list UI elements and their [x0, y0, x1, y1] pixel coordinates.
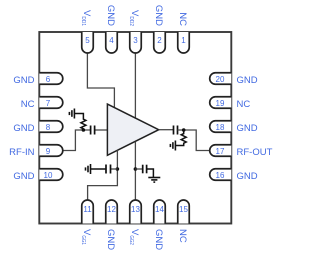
pin 11: [82, 200, 94, 224]
svg-text:GND: GND: [237, 123, 258, 134]
pin 7: [39, 97, 63, 109]
svg-text:14: 14: [155, 205, 164, 214]
node bottom-left junction: [116, 167, 120, 171]
pin 3: [130, 32, 142, 53]
svg-text:GND: GND: [237, 171, 258, 182]
node output junction: [182, 128, 186, 132]
pin 17: [210, 145, 232, 157]
resistor R2 (output shunt): [175, 130, 186, 146]
node input junction: [82, 128, 86, 132]
pin 15: [178, 200, 190, 224]
node bottom-right junction: [134, 167, 138, 171]
package outline U1: [39, 32, 231, 224]
svg-text:15: 15: [179, 205, 188, 214]
pin 19: [210, 97, 232, 109]
svg-text:20: 20: [216, 75, 225, 84]
svg-text:GND: GND: [237, 75, 258, 86]
wire C4 to ground: [147, 169, 154, 177]
svg-text:16: 16: [216, 171, 225, 180]
svg-text:GND: GND: [13, 171, 34, 182]
capacitor C1 (input series): [91, 126, 95, 135]
svg-text:18: 18: [216, 123, 225, 132]
wire RF input from pin 9: [63, 130, 91, 151]
svg-text:GND: GND: [153, 5, 164, 26]
pin 13: [130, 200, 142, 224]
svg-text:6: 6: [46, 75, 51, 84]
pin 16: [210, 169, 232, 181]
svg-text:GND: GND: [105, 5, 116, 26]
svg-text:NC: NC: [177, 12, 188, 26]
wire amp bottom-left to pin 11: [88, 150, 118, 200]
svg-text:7: 7: [46, 99, 51, 108]
wire VDD1 from pin 5 to amp top: [87, 53, 114, 108]
ground (bypass left, sideways): [86, 164, 91, 174]
wire input cap to amp: [95, 129, 108, 131]
wire output to pin 17: [178, 130, 210, 151]
svg-text:8: 8: [46, 123, 51, 132]
svg-text:19: 19: [216, 99, 225, 108]
wire C3 to ground: [91, 168, 107, 170]
wire junction to C4: [135, 168, 142, 170]
capacitor C2 (output series): [174, 126, 178, 135]
svg-text:2: 2: [157, 36, 162, 45]
svg-text:NC: NC: [237, 99, 251, 110]
pin 1: [178, 32, 190, 53]
svg-text:GND: GND: [13, 75, 34, 86]
svg-text:GND: GND: [105, 229, 116, 250]
pin 4: [106, 32, 118, 53]
wire amp bottom-right to pin 13: [134, 142, 136, 200]
capacitor C3 (bypass left): [106, 165, 111, 174]
pin 10: [39, 169, 63, 181]
pin 5: [82, 32, 94, 53]
resistor R1 (input shunt): [74, 114, 86, 131]
svg-text:12: 12: [107, 205, 116, 214]
ground (input, sideways): [69, 109, 74, 119]
svg-text:GND: GND: [153, 229, 164, 250]
pin 14: [154, 200, 166, 224]
svg-text:17: 17: [216, 147, 225, 156]
capacitor C4 (bypass right): [143, 165, 147, 174]
svg-text:1: 1: [181, 36, 186, 45]
svg-text:4: 4: [109, 36, 114, 45]
wire VDD2 from pin 3 to amp top: [134, 53, 136, 119]
svg-text:GND: GND: [13, 123, 34, 134]
svg-text:9: 9: [46, 147, 51, 156]
svg-text:NC: NC: [21, 99, 35, 110]
svg-text:3: 3: [133, 36, 138, 45]
pin 8: [39, 121, 63, 133]
pin 18: [210, 121, 232, 133]
ground (output, sideways): [170, 141, 175, 151]
svg-text:11: 11: [83, 205, 92, 214]
svg-text:5: 5: [85, 36, 90, 45]
ground (bypass right): [148, 178, 160, 183]
wire amp output: [159, 129, 174, 131]
pin 6: [39, 73, 63, 85]
svg-text:NC: NC: [177, 229, 188, 243]
pin 2: [154, 32, 166, 53]
op-amp A1: [107, 104, 158, 155]
pin 9: [39, 145, 63, 157]
svg-text:RF-OUT: RF-OUT: [237, 147, 273, 158]
pin 20: [210, 73, 232, 85]
wire junction to C3: [111, 168, 118, 170]
svg-text:13: 13: [131, 205, 140, 214]
svg-text:10: 10: [44, 171, 53, 180]
pin 12: [106, 200, 118, 224]
svg-text:RF-IN: RF-IN: [9, 147, 34, 158]
